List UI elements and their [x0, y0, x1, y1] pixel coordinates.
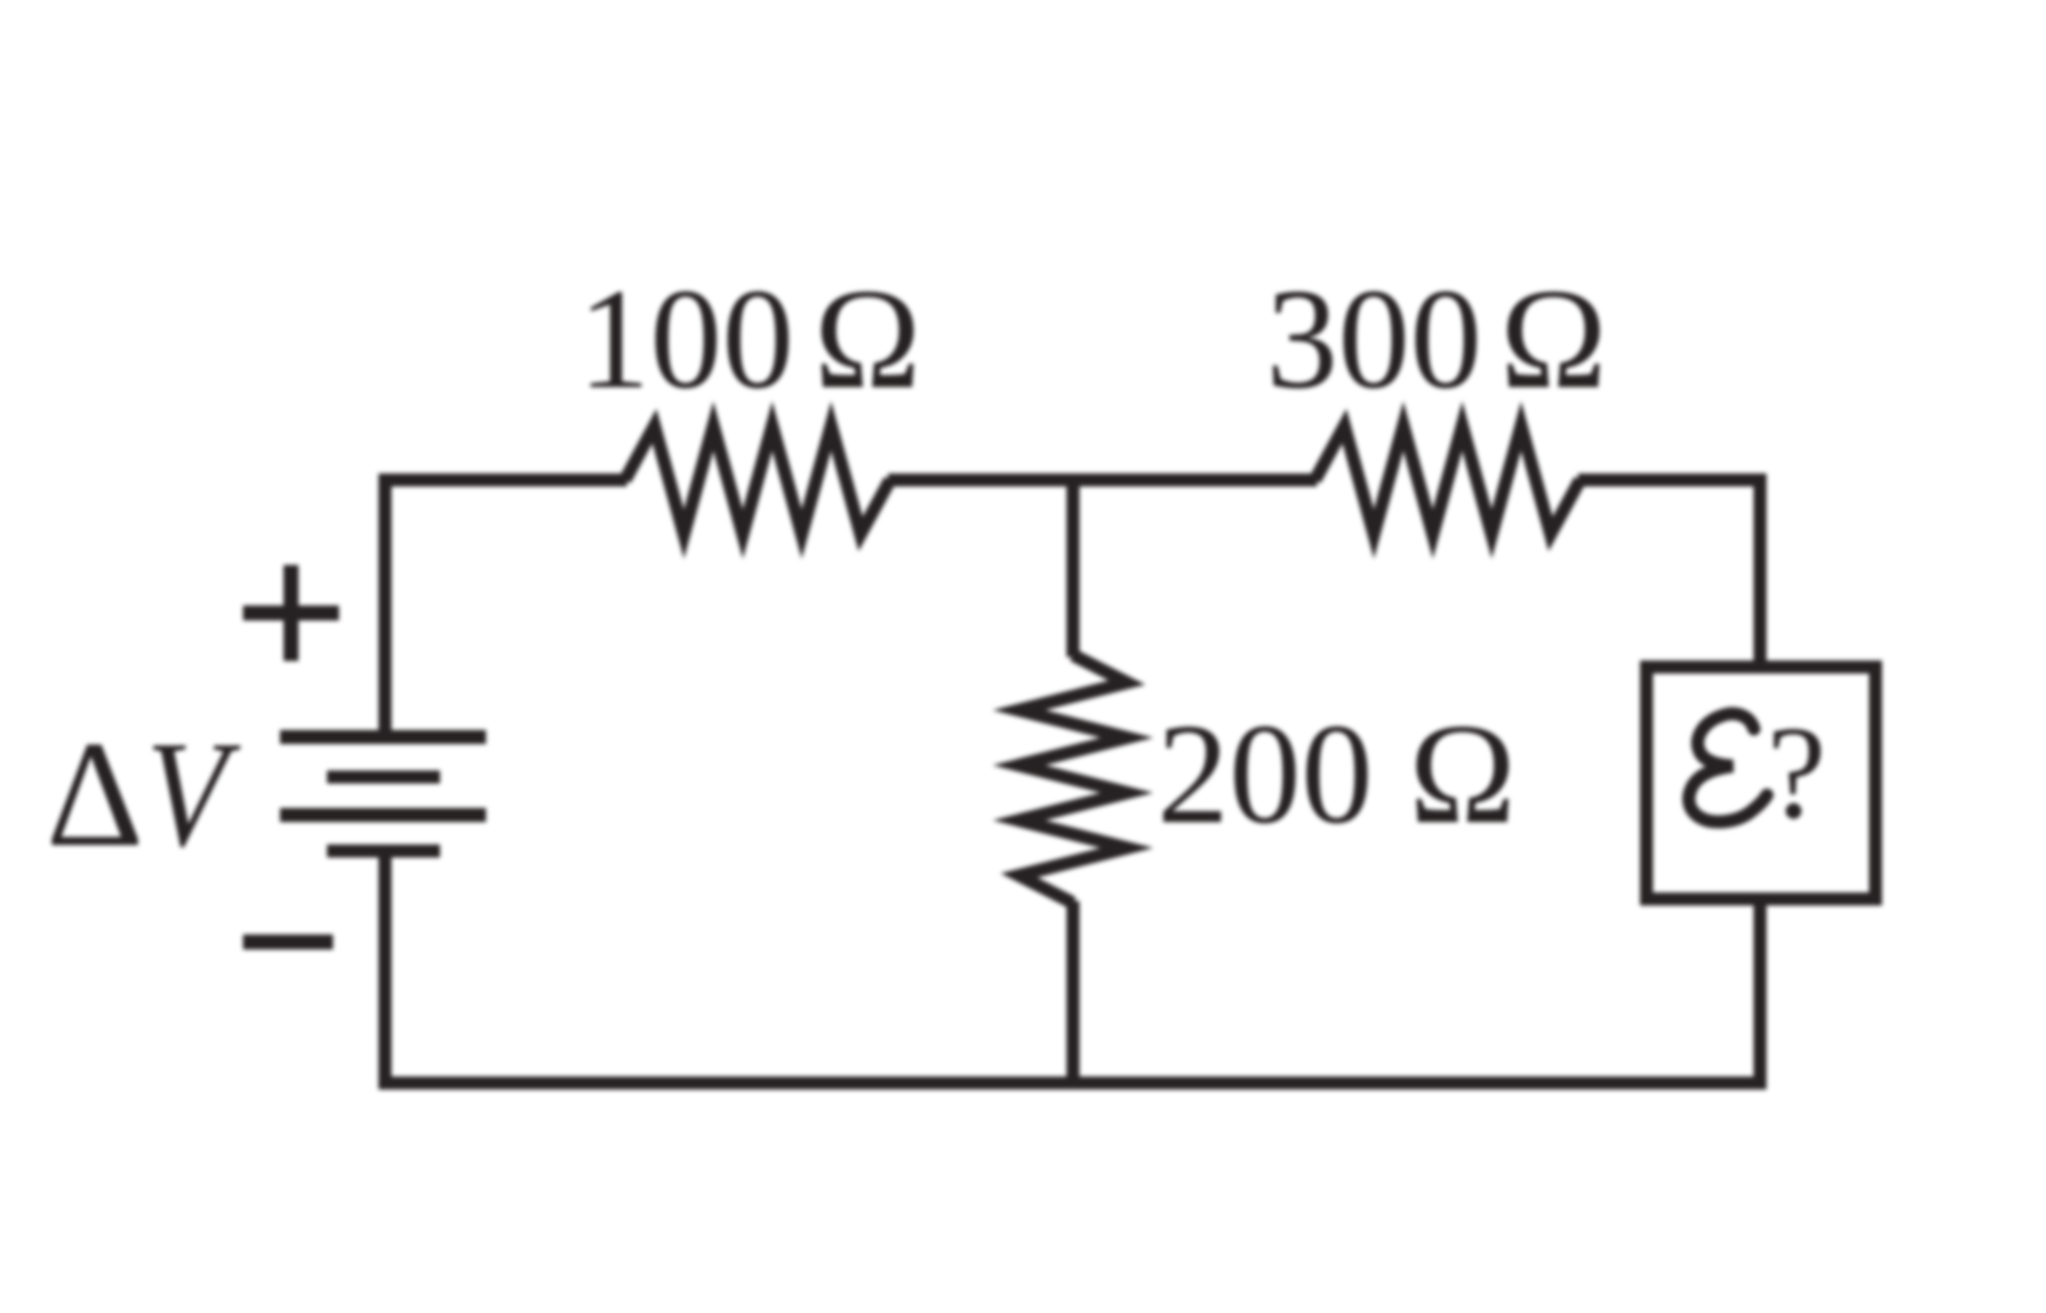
- wire: R3 down to bottom junction node: [1067, 901, 1080, 1083]
- svg-text:Δ: Δ: [46, 710, 144, 878]
- EMF source box (unknown emf): [1647, 667, 1876, 899]
- svg-text:V: V: [146, 709, 241, 878]
- resistor R2 300 ohm (zigzag, top wire): [1315, 426, 1580, 534]
- resistor R1 100 ohm (zigzag, top wire): [625, 426, 890, 534]
- label ℰ script capital E (emf symbol, drawn path): [1689, 714, 1767, 822]
- svg-text:300: 300: [1266, 260, 1482, 419]
- battery + terminal mark: [243, 565, 339, 661]
- battery ΔV plate 2 (short): [327, 771, 440, 784]
- wire: battery negative terminal down, bottom wire right, up to EMF box bottom: [385, 853, 1760, 1083]
- battery ΔV plate 4 (short, negative): [327, 845, 440, 858]
- wire: top junction node down to R3: [1067, 480, 1080, 657]
- battery ΔV plate 1 (long, positive): [280, 730, 486, 744]
- svg-text:Ω: Ω: [814, 260, 921, 419]
- wire: battery positive terminal up to top-left corner, then right to R1: [385, 480, 627, 737]
- svg-text:?: ?: [1767, 698, 1826, 846]
- svg-text:Ω: Ω: [1500, 260, 1607, 419]
- battery ΔV plate 3 (long): [280, 808, 486, 822]
- svg-text:200 Ω: 200 Ω: [1157, 695, 1516, 854]
- battery − terminal mark: [243, 935, 333, 950]
- wire: top middle segment from R1 through top junction node to R2: [888, 474, 1317, 487]
- svg-text:100: 100: [578, 260, 794, 419]
- resistor R3 200 ohm (vertical zigzag, middle branch): [1019, 655, 1127, 903]
- wire: R2 to top-right corner, down to EMF box top: [1578, 480, 1760, 665]
